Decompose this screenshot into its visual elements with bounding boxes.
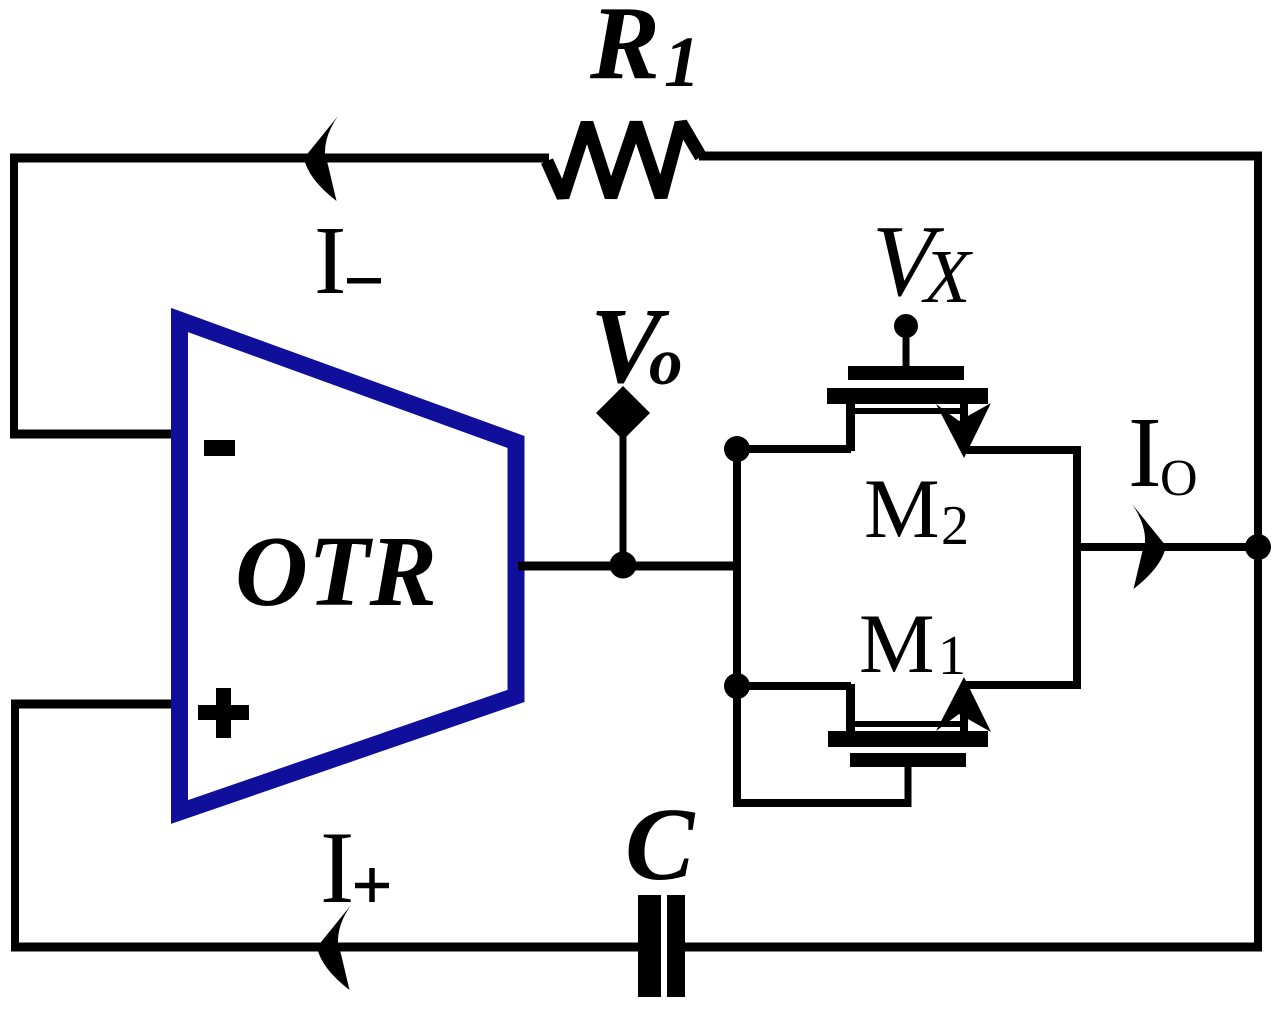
svg-text:R: R — [589, 0, 660, 101]
svg-text:X: X — [921, 235, 973, 319]
wire right vertical — [1254, 152, 1262, 951]
M1 channel bar — [828, 731, 988, 747]
wire left vertical upper — [10, 154, 18, 435]
svg-text:O: O — [1160, 450, 1198, 507]
minus sign inside OTR — [204, 440, 235, 456]
M2 gate terminal dot (VX) — [894, 314, 918, 338]
node junction dot lower — [724, 673, 750, 699]
wire bottom-left horizontal segment — [11, 943, 640, 952]
M2 channel bar — [827, 388, 988, 404]
resistor R1 — [547, 123, 701, 197]
arrow I+ on bottom wire (pointing left) — [317, 905, 351, 990]
plus sign inside OTR — [198, 705, 249, 720]
op-amp OTR (transresistance amplifier trapezoid) — [180, 320, 517, 812]
svg-text:2: 2 — [941, 495, 969, 557]
node Vo probe stem — [620, 412, 627, 568]
M2 gate stem — [903, 324, 910, 372]
M1 drain wire — [733, 682, 851, 690]
arrow Io (pointing right) — [1132, 504, 1166, 589]
M2 drain wire — [733, 445, 851, 453]
M1 gate stem — [905, 763, 912, 807]
node junction dot upper — [724, 436, 750, 462]
svg-text:C: C — [625, 787, 696, 902]
M1 source stub — [960, 714, 968, 731]
M1 source wire — [962, 681, 1081, 689]
svg-text:OTR: OTR — [235, 515, 437, 627]
M1 left (drain) lead — [846, 684, 855, 731]
svg-text:M: M — [864, 462, 940, 556]
M2 source arrow — [936, 403, 991, 458]
M1 source arrow — [936, 677, 991, 732]
M1 gate return wire — [733, 799, 908, 807]
svg-text:I: I — [314, 207, 346, 314]
M1 gate bar — [850, 753, 966, 767]
svg-text:I: I — [1128, 396, 1162, 508]
wire Io output — [1077, 543, 1262, 551]
wire inverting input — [10, 430, 176, 439]
wire OTR output — [518, 562, 741, 571]
wire top-right horizontal segment — [699, 152, 1262, 161]
M2 gate bar — [848, 366, 964, 380]
svg-text:o: o — [649, 325, 683, 399]
svg-text:I: I — [320, 811, 354, 925]
M1 source contact thin line — [849, 721, 962, 727]
wire bottom-right horizontal segment — [684, 943, 1262, 952]
wire center vertical (drain bus) — [733, 445, 741, 807]
M2 left (drain) lead — [846, 404, 855, 451]
capacitor C — [638, 895, 661, 997]
arrow I- on top wire (pointing left) — [304, 116, 338, 201]
M2 source stub — [960, 404, 968, 421]
node junction dot at Vo tap — [610, 552, 637, 579]
wire left vertical lower — [11, 700, 19, 951]
svg-text:M: M — [859, 597, 935, 691]
wire top-left horizontal segment — [10, 154, 549, 163]
svg-text:1: 1 — [664, 22, 700, 102]
M2 source contact thin line — [849, 408, 962, 414]
svg-text:1: 1 — [938, 625, 966, 687]
wire right loop vertical — [1073, 446, 1081, 689]
node Vo probe diamond — [596, 386, 650, 440]
M2 source wire — [962, 446, 1081, 454]
wire non-inverting input — [11, 700, 176, 709]
node junction dot right — [1245, 534, 1271, 560]
